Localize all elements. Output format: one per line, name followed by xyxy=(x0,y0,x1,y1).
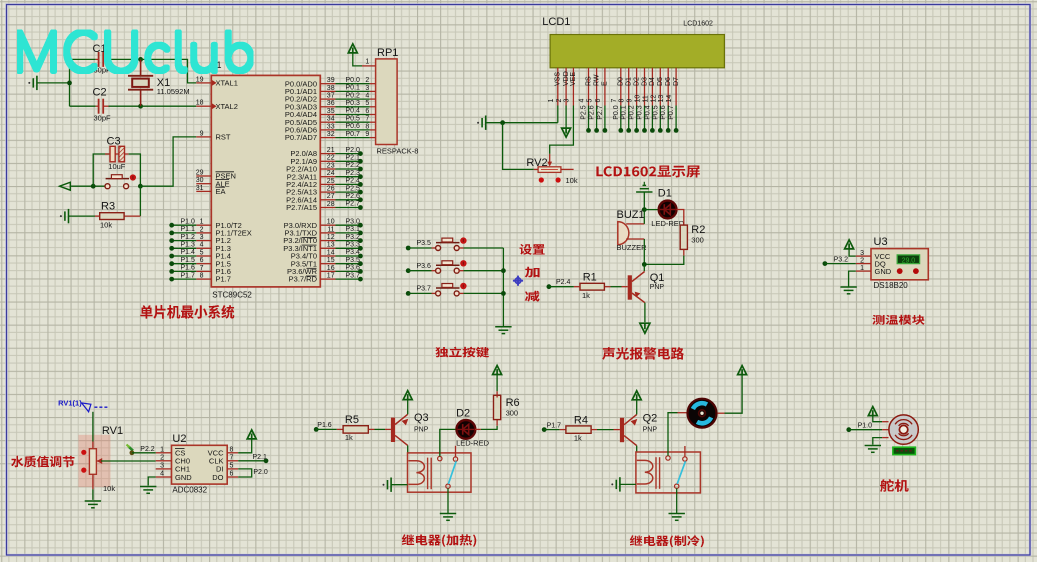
wire button to R3 xyxy=(139,186,141,216)
svg-text:VEE: VEE xyxy=(570,72,577,86)
wire P3.5 to bus xyxy=(459,247,463,249)
svg-text:P0.5: P0.5 xyxy=(346,115,361,122)
resistor R6 xyxy=(494,395,501,419)
svg-text:P3.6: P3.6 xyxy=(346,265,361,272)
node reset-left xyxy=(91,184,96,189)
fan/motor xyxy=(688,399,717,428)
svg-text:RP1: RP1 xyxy=(377,47,398,59)
label: servo (Chinese) xyxy=(880,479,909,492)
svg-text:10k: 10k xyxy=(103,484,115,493)
power arrow (R6) xyxy=(496,391,498,397)
svg-text:LED-RED: LED-RED xyxy=(456,439,490,448)
U2 GND wire xyxy=(148,477,156,486)
svg-text:6: 6 xyxy=(365,108,369,115)
svg-text:35: 35 xyxy=(327,108,335,115)
svg-text:P1.1: P1.1 xyxy=(181,226,196,233)
U2 pin 6 DO xyxy=(227,476,238,478)
potentiometer RV1 xyxy=(92,412,94,442)
capacitor C1 xyxy=(98,52,100,67)
svg-text:26: 26 xyxy=(327,186,335,193)
svg-text:P2.7: P2.7 xyxy=(597,105,604,120)
servo pins xyxy=(882,421,888,423)
svg-text:P0.1: P0.1 xyxy=(621,105,628,120)
svg-text:P1.2: P1.2 xyxy=(181,234,196,241)
wire to XTAL2 xyxy=(141,105,197,107)
wire net P0.7 chip pin 32 to RP1 pin 9 xyxy=(320,137,335,139)
U2 pin 2 CH0 xyxy=(156,460,172,462)
svg-text:P0.2: P0.2 xyxy=(629,105,636,120)
svg-text:13: 13 xyxy=(327,242,335,249)
svg-text:P0.5: P0.5 xyxy=(652,105,659,120)
node C xyxy=(642,262,647,267)
svg-text:18: 18 xyxy=(196,100,204,107)
svg-text:P2.5: P2.5 xyxy=(581,105,588,120)
svg-text:2: 2 xyxy=(860,257,864,264)
svg-text:22: 22 xyxy=(327,155,335,162)
svg-text:23: 23 xyxy=(327,162,335,169)
svg-text:PNP: PNP xyxy=(650,284,665,291)
node B xyxy=(642,207,647,212)
svg-text:1: 1 xyxy=(548,99,555,103)
LCD pin 13 D6 net P0.6 xyxy=(667,68,669,106)
node P2.2 xyxy=(130,450,135,455)
wire R2 to node C xyxy=(683,249,685,255)
relay RL1 coil xyxy=(408,461,424,485)
svg-text:D5: D5 xyxy=(657,77,664,86)
svg-text:12: 12 xyxy=(327,234,335,241)
ground (RV1) xyxy=(85,500,101,502)
svg-text:P0.2: P0.2 xyxy=(346,92,361,99)
svg-text:Q2: Q2 xyxy=(643,412,658,424)
LCD pin 12 D5 net P0.5 xyxy=(659,68,661,106)
svg-text:9: 9 xyxy=(365,131,369,138)
input terminal arrow (reset) xyxy=(60,182,71,190)
svg-text:P3.2: P3.2 xyxy=(834,256,849,263)
svg-text:3: 3 xyxy=(160,463,164,470)
U3 DS18B20 body xyxy=(871,249,928,280)
ground (buttons) xyxy=(495,326,511,328)
svg-text:30pF: 30pF xyxy=(94,114,112,123)
net stub P2.1 chip pin 22 xyxy=(320,160,335,162)
svg-text:3: 3 xyxy=(563,99,570,103)
wire C1 row xyxy=(70,58,96,60)
svg-text:16: 16 xyxy=(327,265,335,272)
svg-text:VSS: VSS xyxy=(555,72,562,86)
push button P3.5 xyxy=(436,246,441,251)
net stub P2.3 chip pin 24 xyxy=(320,176,335,178)
servo angle display xyxy=(893,447,916,454)
svg-text:1k: 1k xyxy=(345,433,353,442)
svg-text:P3.5: P3.5 xyxy=(346,257,361,264)
wire P3.6 to bus xyxy=(459,270,463,272)
wire D1 to R2 xyxy=(676,210,684,226)
svg-text:10: 10 xyxy=(327,219,335,226)
push button P3.6 xyxy=(436,268,441,273)
net stub P2.2 chip pin 23 xyxy=(320,168,335,170)
MCU U1 STC89C52 body xyxy=(211,75,320,287)
svg-text:P1.7: P1.7 xyxy=(547,423,562,430)
node P1.7 xyxy=(542,427,547,432)
resistor R2 xyxy=(680,225,687,249)
LCD pin 3 VEE xyxy=(572,68,574,106)
svg-text:P1.0: P1.0 xyxy=(858,423,873,430)
svg-text:P0.7/AD7: P0.7/AD7 xyxy=(285,133,317,142)
svg-text:P2.0: P2.0 xyxy=(346,147,361,154)
svg-text:4: 4 xyxy=(200,242,204,249)
svg-text:P0.7: P0.7 xyxy=(668,105,675,120)
svg-text:P3.4: P3.4 xyxy=(346,249,361,256)
wire relay RL2 common to fan xyxy=(668,413,678,456)
svg-text:RV1: RV1 xyxy=(102,425,123,437)
wire net P0.1 chip pin 38 to RP1 pin 3 xyxy=(320,90,335,92)
wire VSS down xyxy=(557,106,559,123)
svg-text:R4: R4 xyxy=(574,415,588,427)
ground terminal (crystal net) xyxy=(28,82,30,84)
svg-text:DS18B20: DS18B20 xyxy=(874,281,909,290)
svg-text:P0.4: P0.4 xyxy=(346,108,361,115)
svg-text:8: 8 xyxy=(365,123,369,130)
VDD power-down arrow xyxy=(565,106,567,130)
U3 pin 3 VCC xyxy=(856,255,871,257)
svg-text:D1: D1 xyxy=(626,77,633,86)
svg-text:10k: 10k xyxy=(566,176,578,185)
svg-text:P2.6: P2.6 xyxy=(346,193,361,200)
svg-text:19: 19 xyxy=(196,76,204,83)
svg-text:29: 29 xyxy=(196,169,204,176)
crystal X1 xyxy=(140,59,142,75)
ground (servo) xyxy=(873,438,882,445)
ground (U3) xyxy=(849,271,856,287)
svg-text:D0: D0 xyxy=(618,77,625,86)
svg-text:P0.4: P0.4 xyxy=(644,105,651,120)
svg-text:5: 5 xyxy=(587,99,594,103)
svg-text:4: 4 xyxy=(365,93,369,100)
svg-text:P2.2: P2.2 xyxy=(140,446,155,453)
U2 pin 4 GND xyxy=(156,476,172,478)
LCD pin 9 D2 net P0.2 xyxy=(636,68,638,106)
svg-text:4: 4 xyxy=(160,471,164,478)
svg-text:8: 8 xyxy=(230,446,234,453)
svg-text:RW: RW xyxy=(593,74,600,86)
svg-text:21: 21 xyxy=(327,147,335,154)
node P3.6 xyxy=(406,268,411,273)
svg-text:PNP: PNP xyxy=(414,426,429,433)
net stub P3.6 chip pin 16 xyxy=(320,270,335,272)
svg-text:D2: D2 xyxy=(456,408,470,420)
svg-text:P1.5: P1.5 xyxy=(181,257,196,264)
node P3.7 xyxy=(406,291,411,296)
label: MCU minimal system (Chinese) xyxy=(140,305,234,319)
svg-text:36: 36 xyxy=(327,100,335,107)
wire Q2 collector to relay xyxy=(636,446,638,452)
svg-text:29.0: 29.0 xyxy=(902,257,916,264)
svg-text:R3: R3 xyxy=(101,200,115,212)
relay RL1 NO stub xyxy=(455,446,457,457)
U2 pin 7 CLK xyxy=(227,460,238,462)
svg-text:P1.7: P1.7 xyxy=(181,272,196,279)
svg-text:27: 27 xyxy=(327,193,335,200)
U2 VCC to power arrow xyxy=(238,439,252,453)
svg-text:XTAL2: XTAL2 xyxy=(216,102,238,111)
servo power arrow xyxy=(868,407,877,416)
LCD1602 screen xyxy=(550,35,724,68)
push button (reset) xyxy=(105,184,110,189)
svg-text:11: 11 xyxy=(327,226,334,233)
svg-text:P3.7: P3.7 xyxy=(417,286,432,293)
node bus-P3.6 xyxy=(501,268,506,273)
resistor R5 xyxy=(343,426,368,433)
label: sound-light alarm circuit (Chinese) xyxy=(602,347,684,360)
U2 ADC0832 body xyxy=(172,445,228,484)
svg-text:GND: GND xyxy=(175,473,192,482)
wire reset to RST pin xyxy=(140,137,196,186)
transistor Q1 PNP xyxy=(628,275,632,299)
svg-text:12: 12 xyxy=(650,95,657,103)
svg-text:RST: RST xyxy=(216,133,231,142)
svg-text:10k: 10k xyxy=(100,221,112,230)
RP1 pin 1 to power arrow xyxy=(348,44,357,53)
capacitor C3 (10uF) xyxy=(105,153,129,155)
svg-text:RV2: RV2 xyxy=(526,157,547,169)
svg-text:300: 300 xyxy=(506,408,519,417)
probe pencil on P2.2 xyxy=(129,447,134,451)
svg-text:R5: R5 xyxy=(345,414,359,426)
svg-text:C2: C2 xyxy=(93,87,107,99)
transistor Q2 PNP xyxy=(620,418,624,442)
wire gnd to node B xyxy=(643,192,645,216)
wire D2 to R6 xyxy=(475,428,481,430)
net stub P2.4 chip pin 25 xyxy=(320,183,335,185)
wire C3 left leg xyxy=(93,154,109,186)
svg-text:LCD1: LCD1 xyxy=(542,16,570,28)
relay RL2 switch xyxy=(666,456,670,460)
svg-text:34: 34 xyxy=(327,116,335,123)
net stub P3.5 chip pin 15 xyxy=(320,263,335,265)
svg-text:P1.4: P1.4 xyxy=(181,249,196,256)
node C1-right xyxy=(138,57,143,62)
wire net P0.3 chip pin 36 to RP1 pin 5 xyxy=(320,106,335,108)
svg-text:P3.7: P3.7 xyxy=(346,272,361,279)
svg-text:P1.6: P1.6 xyxy=(317,422,332,429)
svg-text:39: 39 xyxy=(327,77,335,84)
wire relay RL2 to ground xyxy=(676,488,678,513)
svg-text:P2.6: P2.6 xyxy=(589,105,596,120)
overlines INT0 INT1 WR RD xyxy=(302,236,317,238)
net stub P3.3 chip pin 13 xyxy=(320,247,335,249)
U3 pin 2 DQ xyxy=(856,263,871,265)
svg-text:P3.2: P3.2 xyxy=(346,234,361,241)
XTAL pin arrows xyxy=(212,80,217,86)
svg-text:P0.6: P0.6 xyxy=(660,105,667,120)
net stub P2.5 chip pin 26 xyxy=(320,191,335,193)
svg-text:P3.1: P3.1 xyxy=(346,226,361,233)
svg-text:P2.2: P2.2 xyxy=(346,162,361,169)
svg-text:P2.3: P2.3 xyxy=(346,170,361,177)
svg-text:5: 5 xyxy=(200,249,204,256)
wire gnd to node A xyxy=(37,82,69,84)
LCD pin 5 RW net P2.6 xyxy=(596,68,598,106)
svg-text:15: 15 xyxy=(327,257,335,264)
U2 pin 5 DI xyxy=(227,468,238,470)
svg-text:1k: 1k xyxy=(574,434,582,443)
power arrow (Q3 emitter) xyxy=(403,391,412,400)
svg-text:VDD: VDD xyxy=(563,71,570,86)
ground terminal (R3) xyxy=(60,215,62,217)
node P1.0 xyxy=(846,427,851,432)
svg-text:5: 5 xyxy=(365,100,369,107)
svg-text:R2: R2 xyxy=(691,224,705,236)
svg-text:U2: U2 xyxy=(172,433,186,445)
svg-text:6: 6 xyxy=(230,471,234,478)
svg-text:1: 1 xyxy=(160,446,164,453)
U2 pin 1 CS xyxy=(156,452,172,454)
svg-text:R6: R6 xyxy=(506,397,520,409)
svg-text:9: 9 xyxy=(627,99,634,103)
wire C3 right leg xyxy=(129,154,141,186)
svg-text:2: 2 xyxy=(556,99,563,103)
svg-text:P3.3: P3.3 xyxy=(346,242,361,249)
svg-text:P3.6: P3.6 xyxy=(417,263,432,270)
RV2 right stub xyxy=(561,168,574,170)
svg-text:C3: C3 xyxy=(107,135,121,147)
svg-text:3: 3 xyxy=(365,85,369,92)
buzzer terminals xyxy=(626,223,644,225)
transistor Q3 PNP xyxy=(391,418,395,442)
svg-text:3: 3 xyxy=(860,250,864,257)
svg-text:1: 1 xyxy=(365,59,369,66)
wire reset row xyxy=(70,185,105,187)
LCD pin 2 VDD xyxy=(565,68,567,106)
svg-text:P0.1: P0.1 xyxy=(346,85,361,92)
node P1.6 xyxy=(314,427,319,432)
U3 temperature display xyxy=(897,255,919,264)
svg-text:D2: D2 xyxy=(633,77,640,86)
svg-text:ADC0832: ADC0832 xyxy=(172,486,207,495)
svg-text:7: 7 xyxy=(365,116,369,123)
U2 DI-DO bridge net P2.0 xyxy=(238,469,252,477)
label: water quality adjust (Chinese) xyxy=(11,456,74,468)
U3 interactive dots xyxy=(897,268,903,274)
svg-text:P2.0: P2.0 xyxy=(253,469,268,476)
svg-text:1k: 1k xyxy=(582,291,590,300)
chip pin stubs PSEN ALE EA xyxy=(196,175,211,177)
svg-text:P1.6: P1.6 xyxy=(181,265,196,272)
net stub P3.4 chip pin 14 xyxy=(320,255,335,257)
svg-text:13: 13 xyxy=(658,95,665,103)
svg-text:D7: D7 xyxy=(673,77,680,86)
relay RL2 NO stub xyxy=(684,446,686,457)
svg-text:10: 10 xyxy=(635,95,642,103)
svg-text:P1.3: P1.3 xyxy=(181,242,196,249)
capacitor C2 xyxy=(98,99,100,114)
power arrow (Q2 emitter) xyxy=(632,391,641,400)
svg-text:25: 25 xyxy=(327,178,335,185)
U3 pin 1 GND xyxy=(856,270,871,272)
svg-text:P2.4: P2.4 xyxy=(346,178,361,185)
svg-text:2: 2 xyxy=(160,454,164,461)
net stub P3.0 chip pin 10 xyxy=(320,224,335,226)
resistor pack RP1 RESPACK-8 xyxy=(376,59,398,145)
svg-text:P0.3: P0.3 xyxy=(346,100,361,107)
svg-text:R1: R1 xyxy=(583,271,597,283)
svg-text:7: 7 xyxy=(230,454,234,461)
ground terminal (buzzer top, inverted) xyxy=(643,182,645,186)
wire RV1 wiper to U2 CH0 xyxy=(101,460,156,462)
LCD pin 7 D0 net P0.0 xyxy=(620,68,622,106)
U2 CLK net P2.1 xyxy=(238,460,266,462)
svg-text:LCD1602: LCD1602 xyxy=(683,20,713,27)
svg-text:1: 1 xyxy=(860,265,864,272)
svg-text:4: 4 xyxy=(579,99,586,103)
label: plus (Chinese) xyxy=(525,267,540,278)
wire to XTAL1 xyxy=(141,59,197,83)
relay RL1 switch xyxy=(438,456,442,460)
RV1 interactive dots xyxy=(81,450,86,455)
U2 pin 8 VCC xyxy=(227,452,238,454)
LCD pin 10 D3 net P0.3 xyxy=(644,68,646,106)
power-down arrow (Q1 collector) xyxy=(640,323,650,333)
wire P3.7 to bus xyxy=(459,292,463,294)
wire net P0.6 chip pin 33 to RP1 pin 8 xyxy=(320,129,335,131)
selection highlight box xyxy=(78,435,110,487)
wire RV2 left leg xyxy=(503,123,534,170)
svg-text:PNP: PNP xyxy=(643,427,658,434)
potentiometer RV2 xyxy=(538,167,561,173)
LCD pin 14 D7 net P0.7 xyxy=(675,68,677,106)
svg-text:P2.1: P2.1 xyxy=(253,454,268,461)
svg-text:P3.5: P3.5 xyxy=(417,240,432,247)
svg-text:P0.0: P0.0 xyxy=(346,77,361,84)
RV2 interactive dots xyxy=(539,177,544,182)
svg-text:STC89C52: STC89C52 xyxy=(212,291,252,300)
svg-text:P0.0: P0.0 xyxy=(613,105,620,120)
svg-text:E: E xyxy=(602,81,609,86)
relay RL2 coil xyxy=(637,460,653,484)
svg-text:Q3: Q3 xyxy=(414,412,429,424)
wire Q3 collector to relay xyxy=(407,445,409,453)
net stub P2.6 chip pin 27 xyxy=(320,199,335,201)
svg-text:28: 28 xyxy=(327,201,335,208)
label: relay heater (Chinese) xyxy=(402,534,477,547)
U2 pin 3 CH1 xyxy=(156,468,172,470)
wire net P0.2 chip pin 37 to RP1 pin 4 xyxy=(320,98,335,100)
relay RL2 body xyxy=(636,452,701,493)
node P2.4 xyxy=(547,284,552,289)
svg-text:D3: D3 xyxy=(641,77,648,86)
wire net P0.5 chip pin 34 to RP1 pin 7 xyxy=(320,121,335,123)
svg-text:6: 6 xyxy=(595,99,602,103)
label: relay cooler (Chinese) xyxy=(630,535,704,547)
node C2-right xyxy=(138,104,143,109)
svg-text:8: 8 xyxy=(619,99,626,103)
LCD pin 1 VSS xyxy=(557,68,559,106)
svg-text:P3.0: P3.0 xyxy=(346,218,361,225)
svg-text:P2.7/A15: P2.7/A15 xyxy=(286,203,317,212)
wire net P0.0 chip pin 39 to RP1 pin 2 xyxy=(320,83,335,85)
svg-text:P0.6: P0.6 xyxy=(346,123,361,130)
svg-text:Q1: Q1 xyxy=(650,272,665,284)
svg-text:38: 38 xyxy=(327,85,335,92)
node bus-P3.7 xyxy=(501,291,506,296)
net stub P3.2 chip pin 12 xyxy=(320,240,335,242)
svg-text:RV1(1): RV1(1) xyxy=(58,398,82,407)
svg-text:3: 3 xyxy=(200,234,204,241)
svg-text:P2.1: P2.1 xyxy=(346,155,361,162)
svg-text:32: 32 xyxy=(327,131,335,138)
svg-text:11.0592M: 11.0592M xyxy=(157,87,190,96)
svg-text:DO: DO xyxy=(212,473,223,482)
svg-text:P1.7: P1.7 xyxy=(216,275,231,284)
